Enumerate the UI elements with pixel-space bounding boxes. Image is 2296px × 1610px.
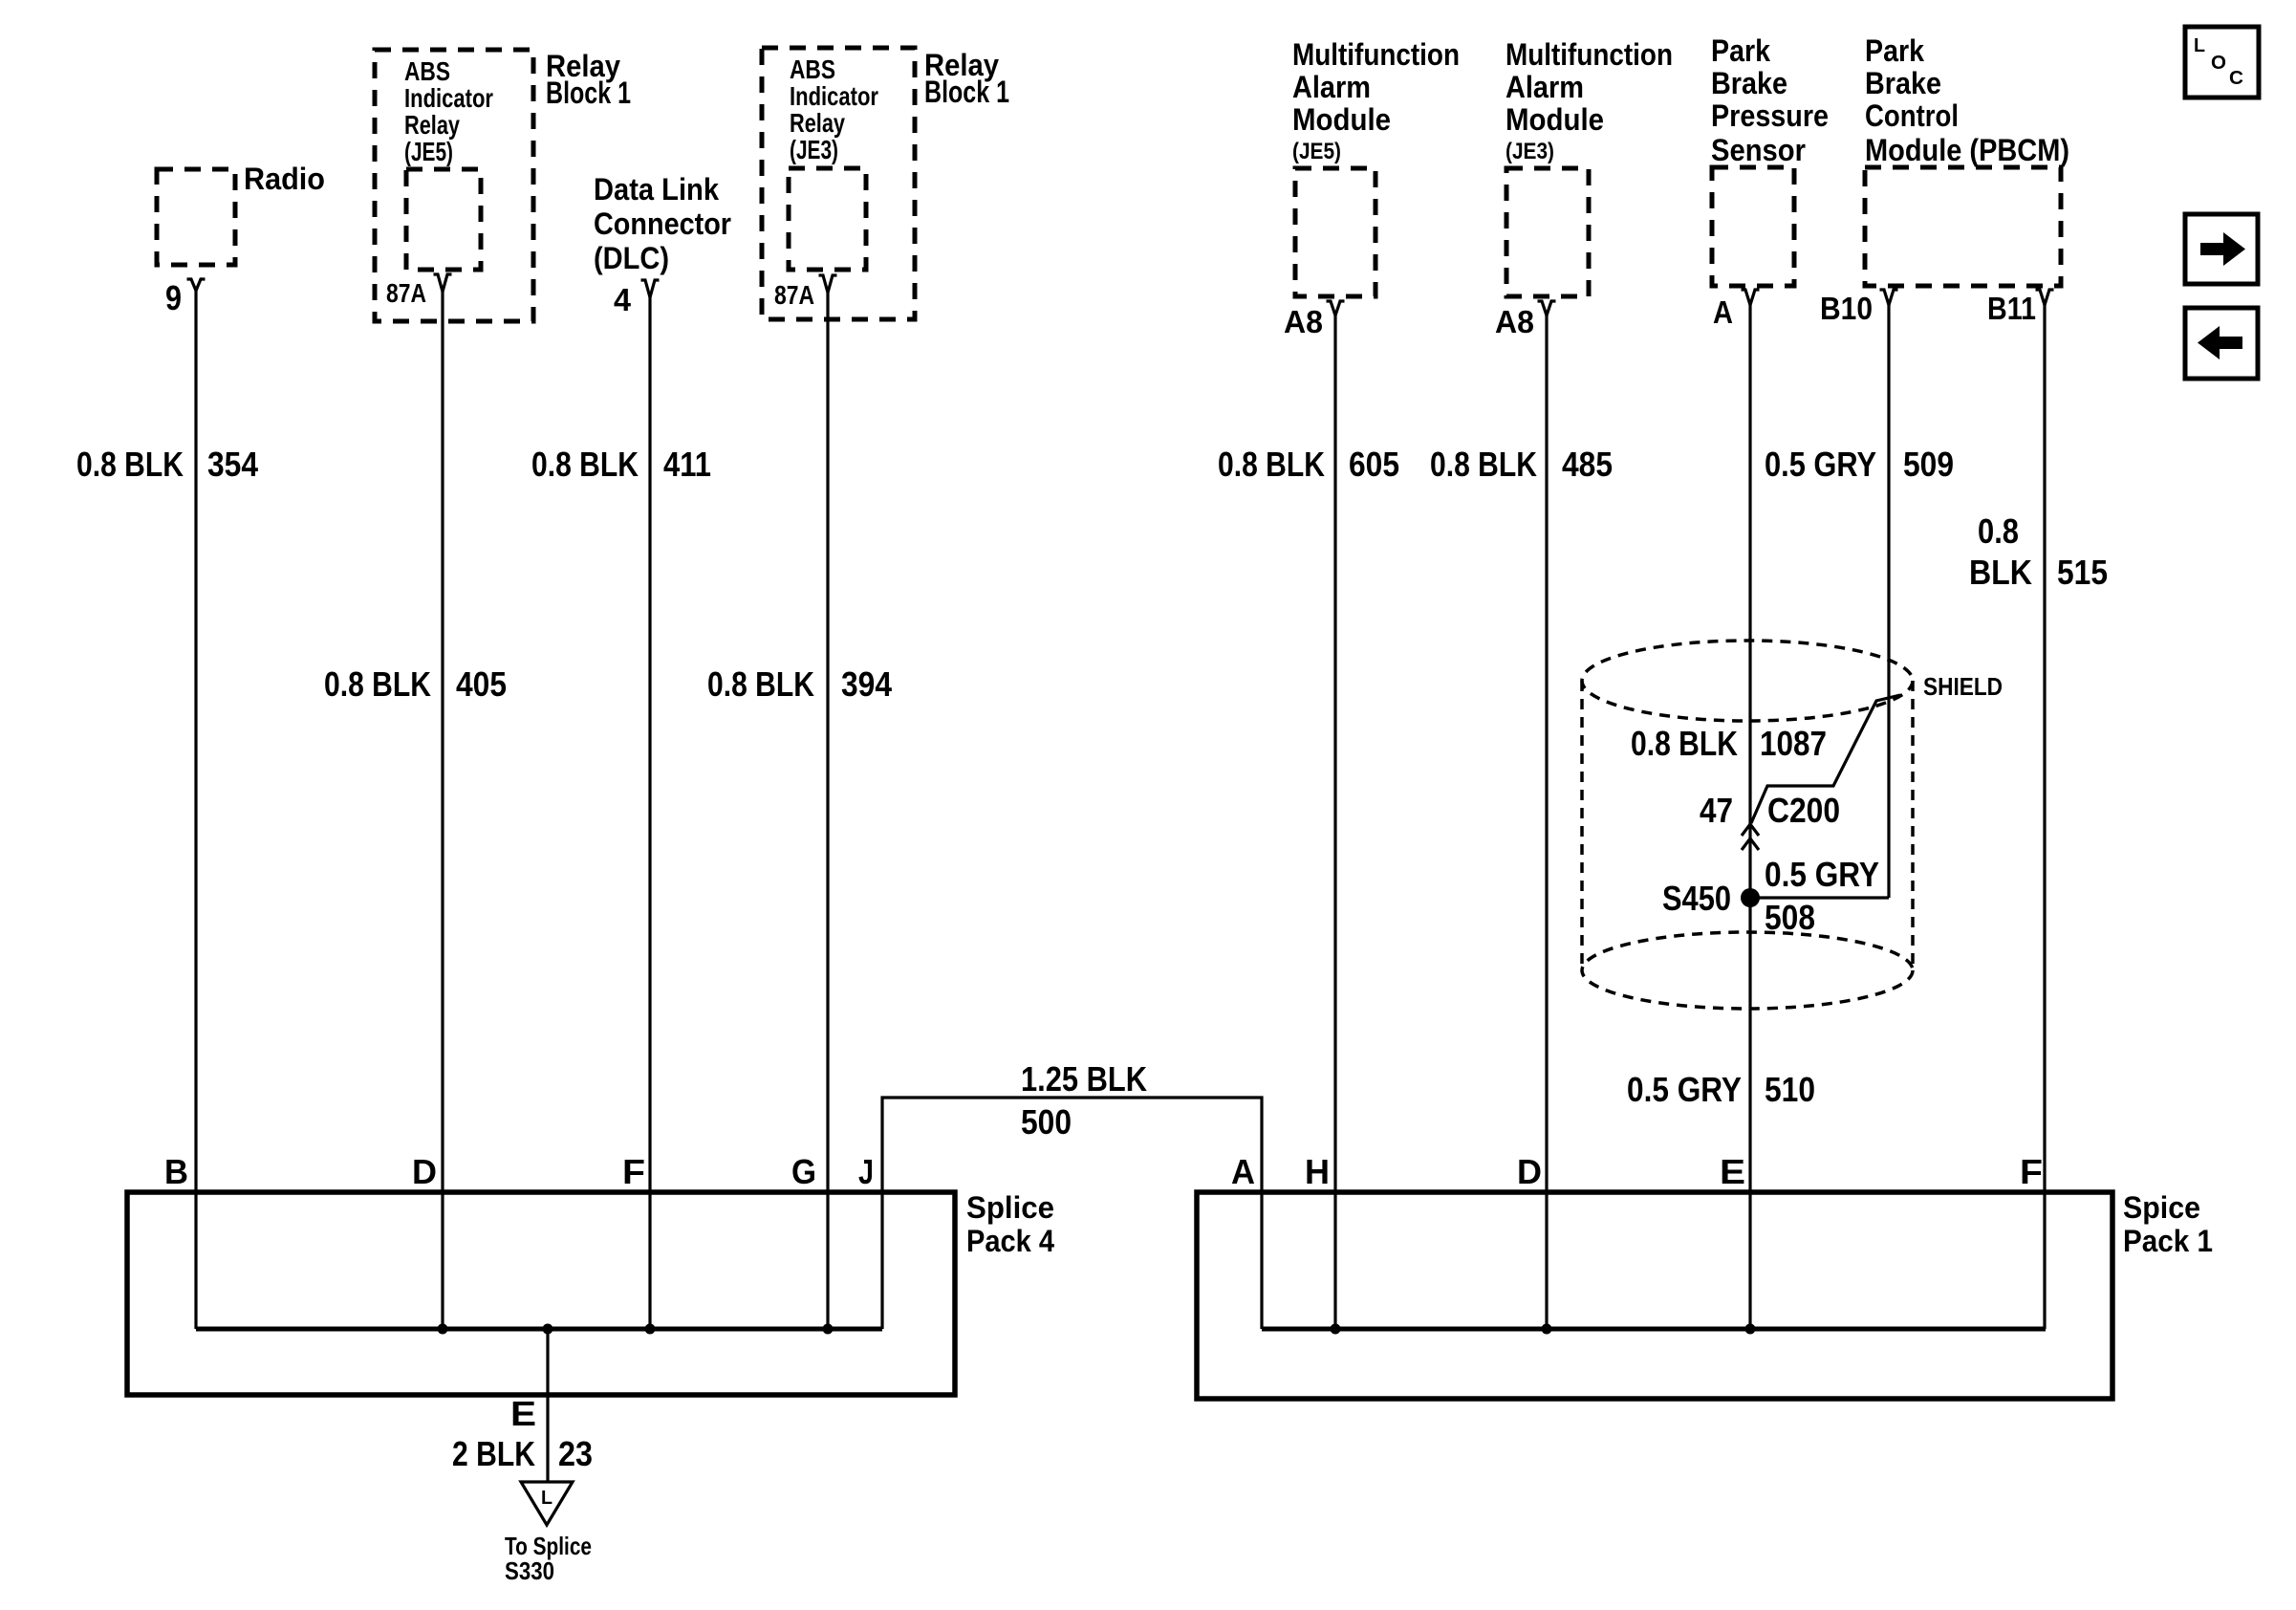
LOC legend box — [2185, 27, 2259, 98]
junction dot E — [543, 1324, 553, 1335]
svg-text:J: J — [858, 1152, 874, 1191]
svg-text:ABS: ABS — [790, 54, 835, 84]
park brake pressure sensor box (dashed) — [1712, 167, 1794, 286]
svg-text:0.8 BLK: 0.8 BLK — [1430, 445, 1537, 484]
svg-text:Block 1: Block 1 — [546, 76, 631, 110]
svg-text:0.8 BLK: 0.8 BLK — [1631, 724, 1738, 763]
svg-text:BLK: BLK — [1969, 553, 2032, 592]
svg-text:B10: B10 — [1820, 291, 1873, 326]
svg-text:Pack 4: Pack 4 — [966, 1224, 1054, 1258]
svg-text:(JE5): (JE5) — [404, 137, 453, 166]
svg-text:E: E — [510, 1394, 536, 1433]
svg-text:4: 4 — [614, 282, 632, 317]
svg-text:Alarm: Alarm — [1505, 70, 1584, 104]
junction dot D — [438, 1324, 448, 1335]
in-line connector C200 chevron symbol — [1742, 824, 1759, 850]
ABS indicator relay JE3 inner box (dashed) — [789, 168, 866, 270]
svg-text:0.8 BLK: 0.8 BLK — [76, 445, 184, 484]
park brake control module box (dashed) — [1865, 167, 2061, 286]
splice pack 4 box — [127, 1192, 955, 1395]
svg-text:Multifunction: Multifunction — [1292, 37, 1460, 72]
svg-text:F: F — [2020, 1152, 2043, 1191]
svg-text:0.8: 0.8 — [1978, 511, 2019, 551]
arrow left icon — [2198, 326, 2242, 359]
svg-text:Indicator: Indicator — [404, 83, 493, 113]
relay block 1 outer box (dashed) — [375, 50, 533, 321]
svg-text:A: A — [1231, 1152, 1255, 1191]
svg-text:1.25 BLK: 1.25 BLK — [1021, 1059, 1147, 1099]
pin A fork connector (sensor) — [1742, 290, 1760, 305]
svg-text:Control: Control — [1865, 98, 1959, 133]
ABS indicator relay JE5 inner box (dashed) — [406, 169, 481, 270]
splice pack 4 bus bar — [196, 1327, 882, 1332]
arrow right icon — [2200, 232, 2245, 266]
svg-text:Block 1: Block 1 — [924, 75, 1009, 109]
svg-text:A: A — [1713, 294, 1733, 330]
svg-text:Pack 1: Pack 1 — [2123, 1224, 2213, 1258]
svg-text:0.5 GRY: 0.5 GRY — [1765, 445, 1876, 484]
wire E vertical (bus to terminal E) — [546, 1329, 549, 1482]
svg-text:2 BLK: 2 BLK — [452, 1434, 535, 1473]
relay block 1 (JE3) outer box (dashed) — [762, 48, 915, 319]
svg-text:485: 485 — [1562, 445, 1613, 484]
svg-text:87A: 87A — [774, 280, 814, 310]
svg-text:9: 9 — [165, 278, 182, 317]
svg-text:508: 508 — [1765, 898, 1815, 937]
svg-text:394: 394 — [841, 664, 892, 704]
wire 1087/510 vertical (sensor pin A to spice pack 1 E) — [1748, 303, 1751, 1329]
wire 411 vertical (DLC pin 4 to splice pack 4 F) — [648, 295, 651, 1329]
svg-text:ABS: ABS — [404, 56, 450, 86]
svg-text:510: 510 — [1765, 1070, 1815, 1109]
svg-text:(DLC): (DLC) — [594, 241, 669, 275]
svg-text:87A: 87A — [386, 278, 426, 308]
junction dot E (pack 1) — [1745, 1324, 1756, 1335]
svg-text:411: 411 — [663, 445, 711, 484]
svg-text:H: H — [1305, 1152, 1330, 1191]
arrow right legend box — [2185, 214, 2258, 284]
svg-text:S330: S330 — [505, 1556, 554, 1585]
spice pack 1 box — [1197, 1192, 2112, 1399]
shield cylinder right side (dashed) — [1911, 681, 1915, 970]
svg-text:B: B — [164, 1152, 188, 1191]
svg-text:Sensor: Sensor — [1711, 133, 1806, 167]
svg-text:C200: C200 — [1767, 791, 1840, 830]
svg-text:Relay: Relay — [404, 110, 460, 140]
svg-text:S450: S450 — [1662, 879, 1731, 918]
svg-text:Brake: Brake — [1865, 66, 1941, 100]
svg-text:A8: A8 — [1284, 304, 1323, 339]
splice S450 — [1741, 888, 1760, 907]
pin B11 fork connector — [2036, 290, 2054, 305]
radio connector box (dashed) — [157, 169, 235, 265]
wire 394 vertical (87A JE3 to splice pack 4 G) — [826, 291, 829, 1329]
svg-text:0.8 BLK: 0.8 BLK — [707, 664, 814, 704]
pin A8 fork connector (JE5 module) — [1327, 301, 1345, 315]
svg-text:G: G — [791, 1152, 816, 1191]
svg-text:509: 509 — [1903, 445, 1954, 484]
svg-text:(JE3): (JE3) — [790, 135, 838, 164]
wire 354 vertical (radio pin 9 to splice pack 4 B) — [194, 290, 197, 1329]
junction dot H — [1331, 1324, 1341, 1335]
svg-text:L: L — [541, 1488, 552, 1509]
multifunction alarm module JE5 box (dashed) — [1295, 168, 1375, 296]
svg-text:Module (PBCM): Module (PBCM) — [1865, 133, 2069, 167]
svg-text:Data Link: Data Link — [594, 172, 719, 207]
svg-text:405: 405 — [456, 664, 507, 704]
svg-text:A8: A8 — [1495, 304, 1534, 339]
pin 4 fork connector — [641, 280, 660, 297]
svg-text:Connector: Connector — [594, 207, 731, 241]
svg-text:L: L — [2194, 35, 2205, 56]
shield annotation leader line — [1751, 695, 1900, 823]
junction dot F — [645, 1324, 656, 1335]
svg-text:Park: Park — [1711, 33, 1770, 68]
svg-text:0.8 BLK: 0.8 BLK — [324, 664, 431, 704]
shield cylinder left side (dashed) — [1580, 681, 1584, 970]
svg-text:23: 23 — [558, 1434, 593, 1473]
svg-text:Splice: Splice — [966, 1190, 1054, 1225]
junction dot D (pack 1) — [1542, 1324, 1552, 1335]
pin A8 fork connector (JE3 module) — [1538, 301, 1556, 315]
pin B10 fork connector — [1880, 290, 1898, 305]
wire 509 vertical (PBCM B10 down into shield) — [1887, 303, 1890, 898]
svg-text:D: D — [412, 1152, 437, 1191]
svg-text:Multifunction: Multifunction — [1505, 37, 1673, 72]
junction dot G — [823, 1324, 834, 1335]
svg-text:B11: B11 — [1987, 291, 2036, 326]
wire 605 vertical (MAM JE5 A8 to spice pack 1 H) — [1333, 314, 1336, 1329]
svg-text:Module: Module — [1505, 102, 1604, 137]
svg-text:O: O — [2211, 53, 2226, 74]
svg-text:605: 605 — [1349, 445, 1399, 484]
pin 87A fork connector — [434, 274, 452, 292]
svg-text:Spice: Spice — [2123, 1190, 2200, 1225]
svg-text:500: 500 — [1021, 1102, 1072, 1142]
svg-text:354: 354 — [207, 445, 258, 484]
wire 405 vertical (87A JE5 to splice pack 4 D) — [441, 290, 444, 1329]
wire 500 horizontal jumper (splice pack 4 J to spice pack 1 A) — [882, 1098, 1262, 1329]
arrow left legend box — [2185, 308, 2258, 379]
ground symbol triangle (to splice S330) — [521, 1482, 573, 1525]
wire 485 vertical (MAM JE3 A8 to spice pack 1 D) — [1545, 314, 1548, 1329]
svg-text:SHIELD: SHIELD — [1923, 672, 2003, 701]
multifunction alarm module JE3 box (dashed) — [1506, 168, 1589, 296]
wire 508 horizontal (B10 wire to splice S450) — [1750, 896, 1889, 899]
svg-text:(JE3): (JE3) — [1505, 139, 1554, 164]
svg-text:0.5 GRY: 0.5 GRY — [1765, 855, 1879, 894]
svg-text:D: D — [1517, 1152, 1542, 1191]
svg-text:1087: 1087 — [1760, 724, 1827, 763]
svg-text:Brake: Brake — [1711, 66, 1787, 100]
shield cylinder top ellipse (dashed) — [1582, 641, 1913, 721]
shield cylinder bottom ellipse (dashed) — [1582, 932, 1913, 1009]
svg-text:Indicator: Indicator — [790, 81, 878, 111]
svg-text:(JE5): (JE5) — [1292, 139, 1341, 164]
spice pack 1 bus bar — [1262, 1327, 2046, 1332]
svg-text:Module: Module — [1292, 102, 1391, 137]
svg-text:F: F — [622, 1152, 645, 1191]
svg-text:C: C — [2229, 68, 2243, 89]
svg-text:47: 47 — [1700, 791, 1733, 830]
wire 515 vertical (PBCM B11 to spice pack 1 F) — [2043, 303, 2046, 1329]
svg-text:0.8 BLK: 0.8 BLK — [531, 445, 639, 484]
svg-text:0.5 GRY: 0.5 GRY — [1627, 1070, 1742, 1109]
svg-text:Alarm: Alarm — [1292, 70, 1371, 104]
svg-text:Radio: Radio — [244, 162, 325, 196]
svg-text:Relay: Relay — [790, 108, 845, 138]
svg-text:Pressure: Pressure — [1711, 98, 1829, 133]
svg-text:E: E — [1720, 1152, 1745, 1191]
pin 87A fork connector (JE3) — [819, 275, 837, 293]
svg-text:0.8 BLK: 0.8 BLK — [1218, 445, 1325, 484]
svg-text:Park: Park — [1865, 33, 1924, 68]
pin 9 fork connector — [187, 279, 206, 291]
svg-text:515: 515 — [2057, 553, 2108, 592]
